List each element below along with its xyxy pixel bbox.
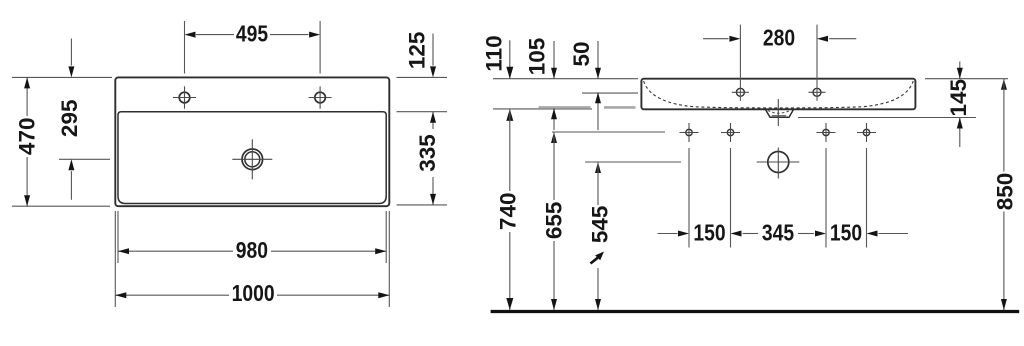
mounting hole 3 <box>817 123 836 142</box>
faucet hole right (top view) <box>309 86 332 108</box>
faucet hole left (top view) <box>173 86 196 108</box>
dimension 850 <box>993 79 1018 310</box>
svg-text:345: 345 <box>762 221 794 246</box>
outlet level extension line (145) <box>798 117 976 119</box>
mounting hole level extension line (655) <box>552 131 665 133</box>
svg-text:280: 280 <box>763 26 795 51</box>
svg-text:545: 545 <box>588 206 613 244</box>
mounting hole extension line 1 <box>688 148 690 248</box>
drain level extension line (545) <box>585 161 681 163</box>
dimension 495 (faucet hole spacing) <box>185 21 321 74</box>
rim level extension line left <box>493 78 638 80</box>
svg-text:470: 470 <box>14 118 39 156</box>
svg-text:125: 125 <box>405 32 430 70</box>
dimension 740 <box>496 109 521 310</box>
mounting hole extension line 3 <box>825 148 827 248</box>
dimension 980 (inner width) <box>118 211 386 264</box>
mounting hole 2 <box>721 123 740 142</box>
dimension 655 <box>542 132 567 310</box>
dimension 280 (faucet spacing front) <box>703 25 856 101</box>
dimension 295 (drain from front edge) <box>57 39 110 200</box>
dimension 1000 (overall width) <box>115 211 389 307</box>
faucet level extension line (50) <box>582 92 638 94</box>
svg-text:150: 150 <box>830 221 862 246</box>
outlet direction arrow <box>591 252 605 264</box>
dimension 145 <box>946 62 971 148</box>
svg-text:740: 740 <box>496 193 521 231</box>
svg-text:335: 335 <box>415 134 440 172</box>
drain trap connection (front view) <box>757 148 800 179</box>
floor line <box>491 310 1020 313</box>
svg-text:295: 295 <box>57 100 82 138</box>
dimension 150 right <box>830 221 908 246</box>
svg-text:850: 850 <box>993 173 1018 211</box>
mounting hole extension line 2 <box>730 148 732 248</box>
dimension 545 <box>588 162 613 310</box>
svg-text:105: 105 <box>525 38 550 76</box>
dimension 345 <box>731 221 827 246</box>
drain (top view) <box>232 139 272 179</box>
faucet hole right (front view) <box>809 88 826 96</box>
svg-text:50: 50 <box>569 41 594 66</box>
underside level extension line (110/740) <box>493 108 592 110</box>
faucet hole left (front view) <box>732 88 749 96</box>
svg-text:655: 655 <box>542 202 567 240</box>
dimension 110 <box>482 35 514 78</box>
dimension 105 <box>525 38 558 130</box>
mounting hole extension line 4 <box>866 148 868 248</box>
svg-text:110: 110 <box>482 35 507 71</box>
dimension 150 left <box>658 221 726 246</box>
svg-text:1000: 1000 <box>232 281 275 306</box>
basin outer rim (top view) <box>115 77 389 206</box>
dimension 335 (inner bowl depth) <box>397 112 448 205</box>
waste outlet centerline <box>777 99 779 126</box>
dimension 125 (rim to inner bowl) <box>397 32 448 78</box>
basin inner bowl (top view) <box>118 112 386 204</box>
basin inner bottom hidden contour (dashed) <box>644 81 914 108</box>
waste outlet stub (front view) <box>766 110 794 118</box>
dimension 50 <box>569 41 601 130</box>
svg-text:980: 980 <box>236 239 268 264</box>
mounting hole 1 <box>680 123 699 142</box>
hidden fixture line (gray dashes) <box>539 106 636 109</box>
rim level extension line right <box>925 78 1008 80</box>
mounting hole 4 <box>857 123 876 142</box>
svg-text:150: 150 <box>693 221 725 246</box>
dimension 470 (basin depth) <box>12 77 112 206</box>
basin body outline (front view) <box>641 79 915 110</box>
svg-text:495: 495 <box>236 22 268 47</box>
svg-text:145: 145 <box>946 79 971 117</box>
